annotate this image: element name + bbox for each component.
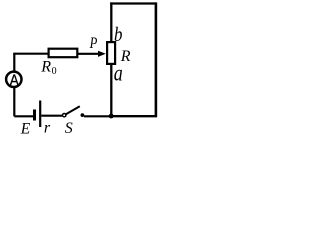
wire left vertical (A branch) [13,54,15,117]
node junction dot [109,114,114,119]
svg-text:a: a [114,61,123,87]
svg-text:r: r [44,120,51,137]
battery negative plate (short thick) [33,110,36,121]
wire right loop top [110,2,156,4]
wire top horizontal to R0 [13,53,48,55]
resistor R0 [49,49,78,58]
wire junction to bottom right corner [111,115,157,117]
svg-text:R: R [40,58,51,75]
svg-text:S: S [65,120,73,136]
switch S lever [66,106,80,114]
wire rheostat bottom lead [110,65,112,117]
rheostat R body [107,42,115,64]
svg-text:A: A [10,71,19,89]
switch S contact dot [81,113,85,117]
wire switch to junction [84,115,112,117]
ammeter A [6,72,21,87]
battery positive plate (long thin) [39,101,41,128]
wire battery to switch [41,115,62,117]
svg-text:0: 0 [52,66,57,77]
wire rheostat top lead [110,2,112,42]
wire from R0 to wiper arrow P [77,53,99,55]
wire right loop right side [155,2,158,117]
switch S pivot [62,114,65,117]
svg-text:E: E [20,121,31,136]
wire bottom left to battery [14,115,33,117]
wiper arrow head P [98,51,106,57]
svg-text:P: P [89,35,98,53]
